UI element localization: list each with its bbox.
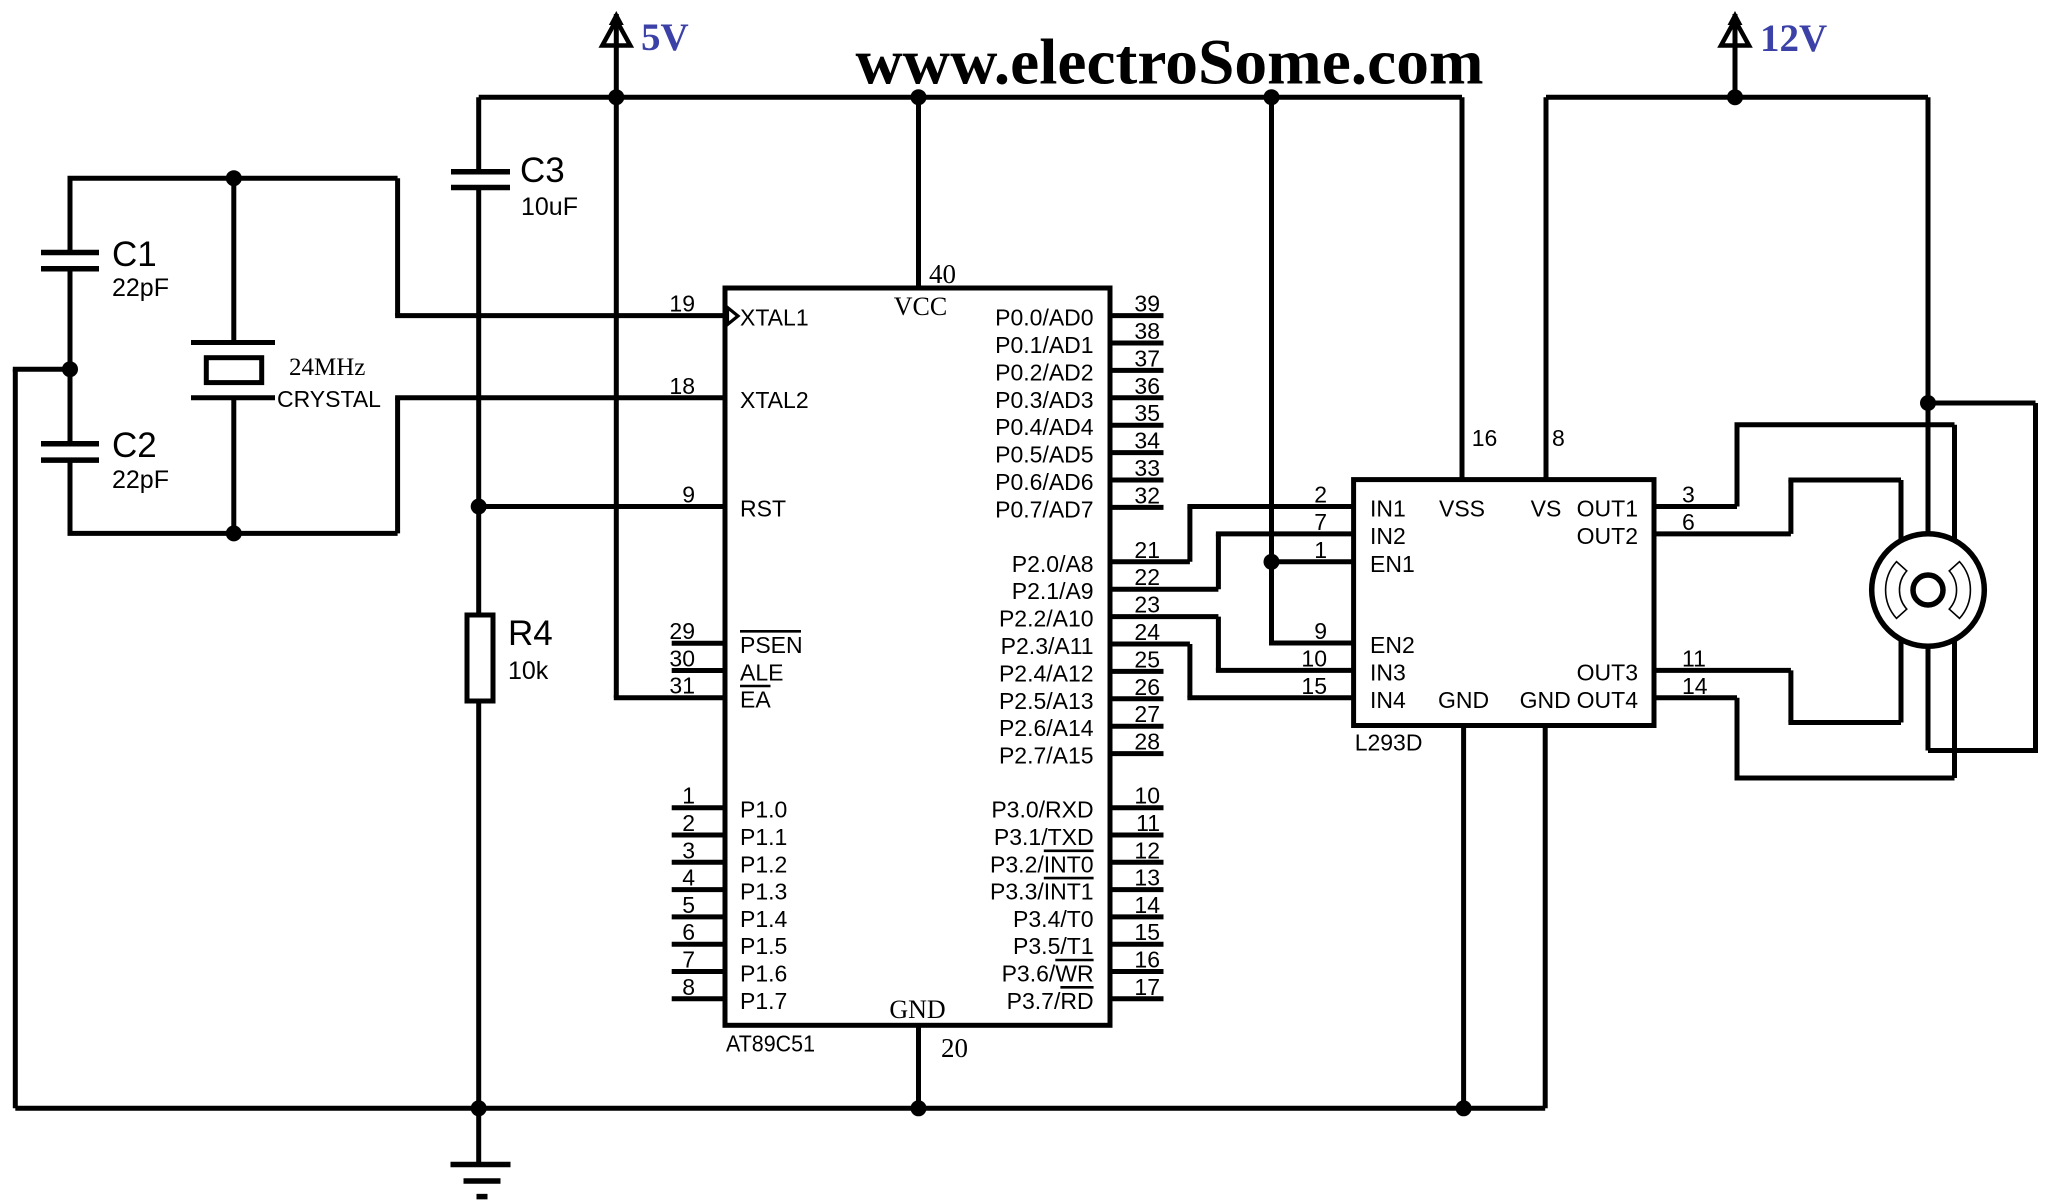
pin 26 P2.5/A13: [999, 674, 1164, 714]
svg-text:P1.4: P1.4: [740, 906, 788, 932]
svg-text:C2: C2: [112, 426, 157, 465]
svg-text:IN3: IN3: [1370, 659, 1406, 685]
pin 9 RST: [682, 482, 786, 522]
wire GND pin 20: [916, 1025, 921, 1108]
svg-text:EA: EA: [740, 687, 771, 713]
svg-text:22pF: 22pF: [112, 274, 169, 302]
svg-text:OUT1: OUT1: [1577, 496, 1638, 522]
wire 5V to EN1 EN2: [1269, 97, 1354, 643]
svg-text:P0.1/AD1: P0.1/AD1: [995, 332, 1093, 358]
pin 23 P2.2/A10: [999, 592, 1218, 632]
svg-text:28: 28: [1134, 729, 1160, 755]
wire 5V to EA: [614, 97, 619, 698]
svg-text:14: 14: [1682, 673, 1708, 699]
IC U2 L293D body: [1354, 480, 1654, 726]
pin 4 P1.3: [672, 865, 788, 905]
wire 12V loop to motor bottom: [1926, 403, 2039, 751]
pin 14 OUT4: [1577, 673, 1708, 713]
power symbol 12V: [1721, 11, 1749, 97]
svg-text:P2.7/A15: P2.7/A15: [999, 743, 1094, 769]
svg-text:PSEN: PSEN: [740, 632, 803, 658]
pin 11 OUT3: [1577, 645, 1706, 685]
pin 15 P3.5/T1: [1013, 919, 1163, 959]
pin 25 P2.4/A12: [999, 646, 1164, 686]
svg-text:40: 40: [929, 259, 956, 289]
pin 22 P2.1/A9: [1012, 564, 1219, 604]
svg-text:C3: C3: [520, 151, 565, 190]
svg-text:P0.6/AD6: P0.6/AD6: [995, 469, 1093, 495]
svg-text:www.electroSome.com: www.electroSome.com: [856, 27, 1484, 99]
pin 14 P3.4/T0: [1013, 892, 1163, 932]
wire 12V to motor top: [1926, 97, 1931, 590]
svg-text:9: 9: [682, 482, 695, 508]
svg-text:6: 6: [1682, 509, 1695, 535]
junction ground rail at L293D GND: [1456, 1100, 1472, 1116]
junction crystal top: [226, 170, 242, 186]
svg-text:33: 33: [1134, 455, 1160, 481]
svg-text:34: 34: [1134, 428, 1160, 454]
svg-text:P1.3: P1.3: [740, 879, 787, 905]
svg-text:EN1: EN1: [1370, 551, 1415, 577]
svg-text:13: 13: [1134, 865, 1160, 891]
svg-text:IN4: IN4: [1370, 687, 1406, 713]
svg-text:XTAL2: XTAL2: [740, 387, 809, 413]
svg-text:P1.5: P1.5: [740, 933, 787, 959]
svg-text:P2.2/A10: P2.2/A10: [999, 606, 1094, 632]
svg-text:R4: R4: [508, 614, 553, 653]
svg-text:P1.0: P1.0: [740, 797, 787, 823]
svg-text:L293D: L293D: [1355, 730, 1423, 756]
junction 5V rail at EN line: [1264, 89, 1280, 105]
svg-text:P0.4/AD4: P0.4/AD4: [995, 414, 1094, 440]
svg-text:39: 39: [1134, 291, 1160, 317]
svg-text:P3.2/INT0: P3.2/INT0: [990, 851, 1094, 877]
svg-text:P1.7: P1.7: [740, 988, 787, 1014]
pin 37 P0.2/AD2: [995, 345, 1163, 385]
svg-text:22: 22: [1134, 564, 1160, 590]
svg-text:10: 10: [1301, 645, 1327, 671]
pin 16 P3.6/WR: [1002, 947, 1164, 987]
svg-text:2: 2: [682, 810, 695, 836]
svg-text:5: 5: [682, 892, 695, 918]
svg-text:P3.3/INT1: P3.3/INT1: [990, 879, 1094, 905]
svg-text:11: 11: [1136, 810, 1160, 836]
svg-text:24: 24: [1134, 619, 1160, 645]
wire P2.1 to IN2: [1216, 534, 1354, 589]
IC U1 AT89C51 body: [725, 288, 1110, 1025]
resistor R4: [467, 615, 493, 701]
svg-text:12V: 12V: [1760, 17, 1827, 60]
svg-text:12: 12: [1134, 837, 1160, 863]
pin 18 XTAL2: [669, 373, 808, 413]
svg-text:P3.0/RXD: P3.0/RXD: [991, 797, 1093, 823]
wire OUT4 to motor: [1654, 590, 1955, 778]
svg-text:OUT2: OUT2: [1577, 523, 1638, 549]
pin 11 P3.1/TXD: [994, 810, 1164, 850]
svg-text:5V: 5V: [641, 16, 689, 59]
wire L293D GND right: [1543, 726, 1548, 1109]
pin 39 P0.0/AD0: [995, 291, 1163, 331]
svg-text:3: 3: [682, 837, 695, 863]
wire VS pin 8: [1544, 97, 1549, 479]
svg-text:VCC: VCC: [894, 292, 947, 321]
svg-text:P2.4/A12: P2.4/A12: [999, 660, 1094, 686]
pin 2 IN1: [1314, 482, 1406, 522]
pin 29 PSEN: [669, 618, 802, 658]
wire C3 to R4: [476, 507, 481, 618]
wire R4 to ground rail: [476, 701, 481, 1108]
svg-text:18: 18: [669, 373, 695, 399]
pin 36 P0.3/AD3: [995, 373, 1163, 413]
svg-text:GND: GND: [1438, 687, 1489, 713]
wire crystal loop top: [68, 176, 398, 181]
wire L293D GND left: [1461, 726, 1466, 1109]
svg-text:3: 3: [1682, 482, 1695, 508]
capacitor C1: [41, 178, 99, 369]
pin 5 P1.4: [672, 892, 788, 932]
svg-text:IN1: IN1: [1370, 496, 1406, 522]
pin 15 IN4: [1301, 673, 1406, 713]
wire XTAL1: [395, 313, 725, 318]
svg-text:P1.2: P1.2: [740, 851, 787, 877]
svg-text:IN2: IN2: [1370, 523, 1406, 549]
svg-text:22pF: 22pF: [112, 466, 169, 494]
wire stub to C1 C2 junction: [13, 367, 70, 372]
pin 31 EA: [669, 673, 771, 713]
wire EA: [614, 695, 725, 700]
pin 13 P3.3/INT1: [990, 865, 1163, 905]
svg-text:17: 17: [1134, 974, 1160, 1000]
junction crystal bottom: [226, 525, 242, 541]
pin 33 P0.6/AD6: [995, 455, 1163, 495]
pin 7 IN2: [1314, 509, 1406, 549]
svg-text:P0.2/AD2: P0.2/AD2: [995, 359, 1093, 385]
pin 3 OUT1: [1577, 482, 1695, 522]
svg-text:RST: RST: [740, 496, 786, 522]
junction 12V motor feed: [1920, 395, 1936, 411]
svg-text:37: 37: [1134, 345, 1160, 371]
svg-text:10: 10: [1134, 783, 1160, 809]
pin 12 P3.2/INT0: [990, 837, 1163, 877]
pin 3 P1.2: [672, 837, 788, 877]
svg-text:XTAL1: XTAL1: [740, 305, 809, 331]
svg-text:10k: 10k: [508, 657, 549, 685]
pin 10 P3.0/RXD: [991, 783, 1163, 823]
capacitor C3: [451, 97, 510, 506]
power symbol 5V: [602, 11, 630, 97]
wire loop right to XTAL1: [395, 178, 400, 315]
svg-text:P1.6: P1.6: [740, 961, 787, 987]
wire VCC pin 40: [916, 97, 921, 288]
svg-text:30: 30: [669, 646, 695, 672]
svg-text:11: 11: [1682, 645, 1706, 671]
svg-text:16: 16: [1134, 947, 1160, 973]
wire 12V rail: [1546, 95, 1928, 100]
junction 5V rail at arrow: [608, 89, 624, 105]
svg-text:31: 31: [669, 673, 695, 699]
svg-text:2: 2: [1314, 482, 1327, 508]
wire XTAL2: [395, 395, 725, 400]
svg-text:OUT3: OUT3: [1577, 659, 1638, 685]
svg-text:1: 1: [682, 783, 695, 809]
svg-text:ALE: ALE: [740, 660, 783, 686]
svg-text:1: 1: [1314, 537, 1327, 563]
pin 34 P0.5/AD5: [995, 428, 1163, 468]
wire left edge vertical: [13, 369, 18, 1108]
svg-text:19: 19: [669, 291, 695, 317]
svg-text:P2.6/A14: P2.6/A14: [999, 715, 1094, 741]
pin 38 P0.1/AD1: [995, 318, 1163, 358]
wire OUT2 to motor: [1654, 480, 1901, 590]
wire crystal loop bottom: [68, 531, 398, 536]
wire RST: [476, 504, 725, 509]
pin 1 P1.0: [672, 783, 788, 823]
wire VSS pin 16: [1460, 97, 1465, 479]
svg-text:27: 27: [1134, 701, 1160, 727]
svg-text:4: 4: [682, 865, 695, 891]
svg-text:GND: GND: [1520, 687, 1571, 713]
junction ground rail at R4: [471, 1100, 487, 1116]
pin 1 EN1: [1314, 537, 1415, 577]
junction ground rail at GND pin: [911, 1100, 927, 1116]
svg-text:16: 16: [1472, 425, 1498, 451]
svg-text:P3.1/TXD: P3.1/TXD: [994, 824, 1094, 850]
svg-text:26: 26: [1134, 674, 1160, 700]
svg-text:20: 20: [941, 1033, 968, 1063]
pin 2 P1.1: [672, 810, 788, 850]
svg-text:C1: C1: [112, 235, 157, 274]
svg-text:P3.6/WR: P3.6/WR: [1002, 961, 1094, 987]
svg-text:10uF: 10uF: [521, 193, 578, 221]
svg-text:P0.0/AD0: P0.0/AD0: [995, 305, 1093, 331]
ground: [451, 1108, 511, 1196]
wire OUT3 to motor: [1654, 590, 1901, 723]
svg-text:P0.7/AD7: P0.7/AD7: [995, 496, 1093, 522]
svg-text:P0.3/AD3: P0.3/AD3: [995, 387, 1093, 413]
svg-text:36: 36: [1134, 373, 1160, 399]
pin 27 P2.6/A14: [999, 701, 1164, 741]
wire P2.3 to IN4: [1187, 644, 1353, 698]
svg-text:25: 25: [1134, 646, 1160, 672]
pin 10 IN3: [1301, 645, 1405, 685]
pin 30 ALE: [669, 646, 783, 686]
svg-text:35: 35: [1134, 400, 1160, 426]
svg-text:15: 15: [1301, 673, 1327, 699]
pin 9 EN2: [1314, 618, 1415, 658]
svg-text:OUT4: OUT4: [1577, 687, 1639, 713]
motor M1: [1872, 534, 1985, 647]
svg-text:15: 15: [1134, 919, 1160, 945]
wire OUT1 to motor: [1654, 425, 1955, 590]
pin 21 P2.0/A8: [1012, 537, 1190, 577]
junction EN1: [1264, 554, 1280, 570]
svg-text:GND: GND: [889, 995, 945, 1024]
wire P2.0 to IN1: [1187, 507, 1353, 562]
svg-text:7: 7: [1314, 509, 1327, 535]
svg-text:P2.3/A11: P2.3/A11: [1001, 633, 1094, 659]
svg-text:AT89C51: AT89C51: [726, 1031, 815, 1057]
pin 7 P1.6: [672, 947, 788, 987]
pin 24 P2.3/A11: [1001, 619, 1190, 659]
crystal X1 24MHz: [191, 178, 275, 533]
wire loop right to XTAL2: [395, 398, 400, 534]
pin 6 OUT2: [1577, 509, 1695, 549]
svg-text:P3.5/T1: P3.5/T1: [1013, 933, 1094, 959]
svg-text:8: 8: [682, 974, 695, 1000]
svg-text:8: 8: [1552, 425, 1565, 451]
svg-text:P3.7/RD: P3.7/RD: [1007, 988, 1094, 1014]
junction C1 C2: [62, 361, 78, 377]
svg-text:P3.4/T0: P3.4/T0: [1013, 906, 1094, 932]
svg-text:7: 7: [682, 947, 695, 973]
junction 12V rail at arrow: [1727, 89, 1743, 105]
wire ground rail: [15, 1106, 1545, 1111]
svg-text:21: 21: [1134, 537, 1160, 563]
svg-text:P2.1/A9: P2.1/A9: [1012, 578, 1094, 604]
pin 32 P0.7/AD7: [995, 482, 1163, 522]
svg-text:VS: VS: [1531, 496, 1562, 522]
pin 28 P2.7/A15: [999, 729, 1164, 769]
svg-text:P1.1: P1.1: [740, 824, 787, 850]
pin 8 P1.7: [672, 974, 788, 1014]
svg-text:P2.5/A13: P2.5/A13: [999, 688, 1094, 714]
svg-text:24MHz: 24MHz: [289, 354, 365, 381]
svg-text:VSS: VSS: [1439, 496, 1485, 522]
svg-text:23: 23: [1134, 592, 1160, 618]
svg-text:32: 32: [1134, 482, 1160, 508]
pin 35 P0.4/AD4: [995, 400, 1163, 440]
svg-text:CRYSTAL: CRYSTAL: [277, 386, 381, 412]
junction 5V rail at VCC: [911, 89, 927, 105]
svg-text:38: 38: [1134, 318, 1160, 344]
svg-text:29: 29: [669, 618, 695, 644]
pin 19 XTAL1: [669, 291, 808, 331]
wire 5V rail: [479, 95, 1462, 100]
pin 6 P1.5: [672, 919, 788, 959]
svg-text:EN2: EN2: [1370, 632, 1415, 658]
capacitor C2: [41, 369, 99, 533]
svg-text:P2.0/A8: P2.0/A8: [1012, 551, 1094, 577]
svg-text:P0.5/AD5: P0.5/AD5: [995, 442, 1093, 468]
pin 17 P3.7/RD: [1007, 974, 1164, 1014]
svg-text:6: 6: [682, 919, 695, 945]
wire P2.2 to IN3: [1216, 617, 1354, 671]
svg-text:9: 9: [1314, 618, 1327, 644]
svg-text:14: 14: [1134, 892, 1160, 918]
junction RST: [471, 499, 487, 515]
